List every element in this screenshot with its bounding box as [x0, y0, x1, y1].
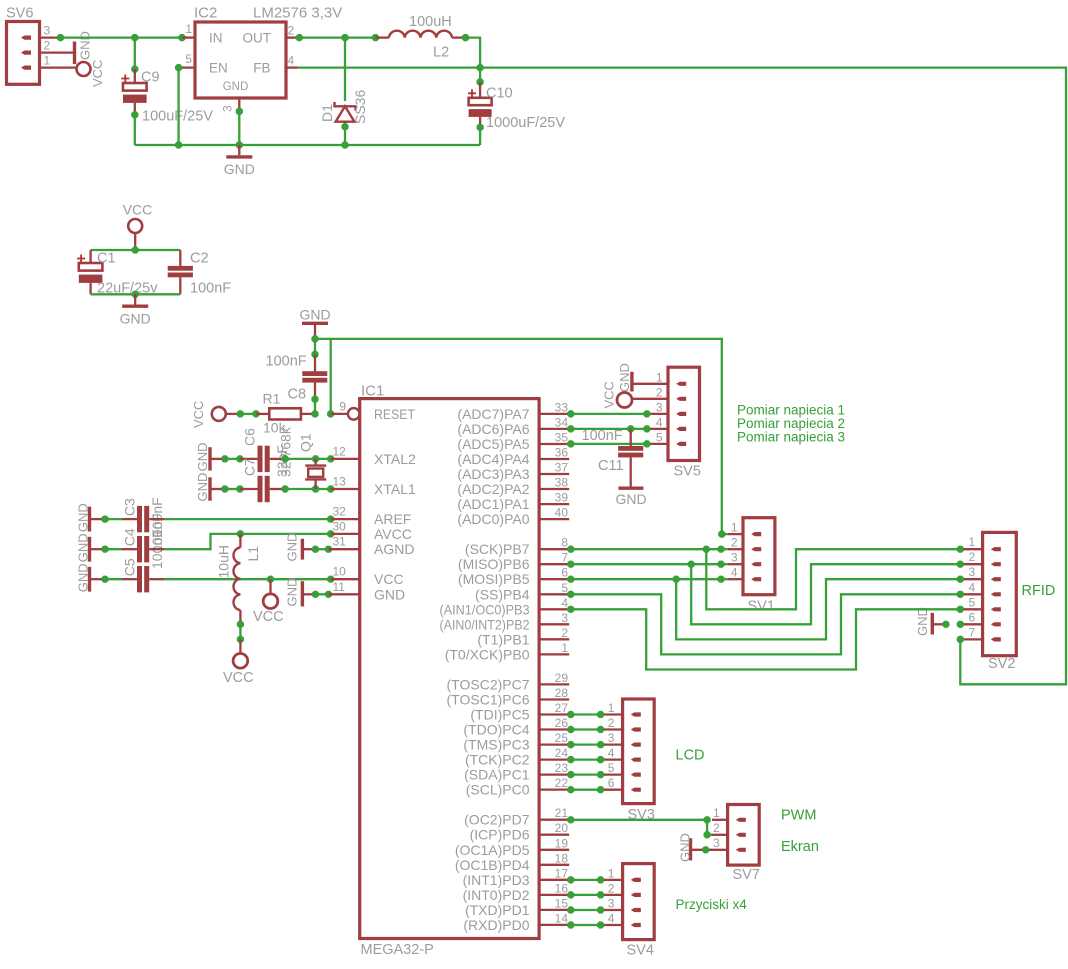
ground GND at SV5 pin 1 — [630, 372, 633, 392]
svg-text:13: 13 — [333, 475, 347, 489]
svg-text:(TXD)PD1: (TXD)PD1 — [465, 902, 530, 918]
op-amp U1 regulator IC2 LM2576 — [195, 22, 286, 98]
svg-text:(SCL)PC0: (SCL)PC0 — [466, 782, 530, 798]
svg-text:LM2576 3,3V: LM2576 3,3V — [253, 5, 342, 22]
capacitor C1 — [89, 250, 91, 263]
svg-text:10: 10 — [333, 565, 347, 579]
svg-text:28: 28 — [555, 686, 569, 700]
svg-text:C1: C1 — [97, 251, 116, 267]
svg-text:37: 37 — [555, 461, 569, 475]
wire AVCC net with jog — [164, 534, 331, 549]
svg-text:(T1)PB1: (T1)PB1 — [477, 631, 529, 647]
svg-text:GND: GND — [617, 363, 632, 392]
svg-text:(TMS)PC3: (TMS)PC3 — [463, 737, 529, 753]
svg-text:4: 4 — [288, 54, 295, 68]
ground GND below C11 — [618, 487, 643, 490]
connector SV5 — [668, 367, 700, 460]
pin 35 (ADC5)PA5 — [539, 443, 569, 445]
ground GND at C3 — [88, 507, 91, 532]
svg-text:SV6: SV6 — [6, 6, 33, 22]
svg-text:14: 14 — [555, 911, 569, 925]
svg-text:3: 3 — [713, 836, 720, 850]
wire GND net down to RESET — [330, 339, 332, 414]
svg-text:2: 2 — [561, 626, 568, 640]
capacitor C2 — [179, 250, 181, 266]
inductor L1 10uH — [239, 534, 241, 548]
svg-text:(ICP)PD6: (ICP)PD6 — [470, 827, 530, 843]
supply VCC at reset — [212, 407, 226, 421]
svg-text:GND: GND — [678, 833, 693, 862]
svg-text:VCC: VCC — [90, 60, 105, 87]
svg-text:C5: C5 — [122, 558, 138, 576]
pin 3 (AIN0/INT2)PB2 — [539, 623, 569, 625]
svg-text:7: 7 — [969, 625, 976, 639]
svg-text:SV4: SV4 — [627, 943, 654, 959]
svg-text:GND: GND — [285, 578, 300, 607]
svg-text:C3: C3 — [122, 498, 138, 516]
wire VCC to R1 — [240, 413, 256, 415]
ground GND at SV7 pin 3 — [689, 838, 692, 860]
pin 17 (INT1)PD3 — [539, 879, 569, 881]
svg-text:C9: C9 — [141, 70, 160, 86]
pin 4 (AIN1/OC0)PB3 — [539, 608, 569, 610]
svg-text:30: 30 — [333, 519, 347, 533]
svg-text:1: 1 — [731, 521, 738, 535]
resistor R1 10k — [256, 413, 269, 415]
svg-text:15: 15 — [555, 896, 569, 910]
capacitor C7 32pF — [240, 488, 258, 490]
svg-text:(TDI)PC5: (TDI)PC5 — [470, 707, 529, 723]
svg-text:IC2: IC2 — [194, 5, 217, 22]
svg-text:Q1: Q1 — [297, 433, 313, 452]
svg-text:(INT0)PD2: (INT0)PD2 — [463, 887, 530, 903]
wire OUT to L2 — [296, 34, 303, 41]
supply VCC below L1 — [233, 654, 248, 669]
svg-text:SV5: SV5 — [674, 464, 701, 480]
svg-text:100nF: 100nF — [266, 354, 307, 370]
svg-text:XTAL2: XTAL2 — [374, 451, 416, 467]
wire PD2 to SV4 pin 2 — [567, 891, 574, 898]
svg-text:6: 6 — [969, 610, 976, 624]
inductor L2 100uH — [376, 36, 390, 38]
pin 5 EN — [179, 66, 195, 68]
svg-text:34: 34 — [555, 415, 569, 429]
pin 24 (TCK)PC2 — [539, 758, 569, 760]
svg-text:(OC1B)PD4: (OC1B)PD4 — [455, 857, 530, 873]
svg-text:(ADC7)PA7: (ADC7)PA7 — [457, 406, 529, 422]
svg-text:SS36: SS36 — [352, 90, 368, 124]
svg-text:(ADC0)PA0: (ADC0)PA0 — [457, 511, 529, 527]
supply VCC at SV5 pin 2 — [617, 393, 632, 408]
pin 19 (OC1A)PD5 — [539, 849, 569, 851]
svg-text:GND: GND — [195, 443, 210, 472]
wire VCC rail C1 C2 — [132, 246, 139, 253]
svg-text:(TOSC2)PC7: (TOSC2)PC7 — [447, 676, 530, 692]
ground GND at C5 — [88, 567, 91, 592]
capacitor C9 — [134, 38, 136, 70]
svg-text:VCC: VCC — [253, 609, 284, 625]
capacitor C4 100nF — [105, 548, 122, 550]
capacitor C6 32pF — [240, 458, 258, 460]
svg-text:25: 25 — [555, 731, 569, 745]
ground GND at SV6 pin 2 — [73, 42, 76, 65]
wire C7 to IC1 XTAL1 — [285, 488, 331, 490]
svg-text:(ADC1)PA1: (ADC1)PA1 — [457, 496, 529, 512]
capacitor C3 100nF — [105, 518, 122, 520]
connector SV4 — [623, 864, 655, 940]
svg-text:21: 21 — [555, 806, 569, 820]
svg-text:4: 4 — [561, 596, 568, 610]
svg-text:2: 2 — [608, 881, 615, 895]
svg-text:1000uF/25V: 1000uF/25V — [486, 115, 565, 131]
wire ground rail C1 C2 — [91, 293, 181, 295]
svg-text:(SS)PB4: (SS)PB4 — [475, 586, 530, 602]
svg-text:5: 5 — [969, 595, 976, 609]
svg-text:(ADC4)PA4: (ADC4)PA4 — [457, 451, 529, 467]
svg-text:C8: C8 — [288, 387, 307, 403]
wire MISO PB6 to SV1.3 and SV2.2 — [567, 561, 574, 568]
wire PA5 to SV5 pin 5 — [567, 440, 574, 447]
svg-text:VCC: VCC — [191, 401, 206, 428]
svg-text:1: 1 — [44, 54, 51, 68]
pin 4 FB — [286, 66, 298, 68]
svg-text:Pomiar napiecia 3: Pomiar napiecia 3 — [737, 430, 845, 445]
wire ground rail of regulator — [135, 144, 480, 146]
svg-text:18: 18 — [555, 851, 569, 865]
microcontroller IC1 MEGA32-P — [360, 399, 539, 939]
svg-text:GND: GND — [299, 307, 330, 323]
wire SV2 pin 7 dot — [957, 636, 964, 643]
svg-text:(ADC5)PA5: (ADC5)PA5 — [457, 436, 529, 452]
wire L2 to output node — [466, 38, 481, 68]
svg-text:Ekran: Ekran — [781, 839, 819, 855]
svg-text:(SCK)PB7: (SCK)PB7 — [465, 541, 530, 557]
svg-text:7: 7 — [561, 551, 568, 565]
svg-text:VCC: VCC — [374, 571, 404, 587]
svg-text:19: 19 — [555, 836, 569, 850]
ground GND at C7 — [208, 477, 211, 500]
pin 20 (ICP)PD6 — [539, 834, 569, 836]
pin 16 (INT0)PD2 — [539, 894, 569, 896]
wire RESET net to IC1 pin 9 — [311, 410, 318, 417]
connector SV7 — [728, 805, 760, 866]
svg-text:OUT: OUT — [243, 31, 272, 46]
ground GND at SV2 pin 6 — [931, 613, 934, 635]
svg-text:6: 6 — [608, 776, 615, 790]
svg-text:3: 3 — [656, 400, 663, 414]
pin stubs SV5 — [632, 383, 668, 385]
wire to SV1 pin 1 — [718, 531, 725, 538]
svg-text:VCC: VCC — [223, 670, 254, 686]
pin 1 (T0/XCK)PB0 — [539, 653, 569, 655]
svg-text:36: 36 — [555, 446, 569, 460]
wire PC4 to SV3 pin 2 — [567, 726, 574, 733]
svg-text:8: 8 — [561, 536, 568, 550]
svg-text:4: 4 — [731, 566, 738, 580]
svg-text:(TCK)PC2: (TCK)PC2 — [465, 752, 530, 768]
wire AREF net — [164, 518, 331, 520]
capacitor C8 100nF — [314, 339, 316, 355]
wire SS PB4 to SV2.4 — [567, 591, 574, 598]
svg-text:(AIN0/INT2)PB2: (AIN0/INT2)PB2 — [440, 616, 530, 632]
pin 40 (ADC0)PA0 — [539, 518, 569, 520]
svg-text:VCC: VCC — [602, 381, 617, 408]
svg-text:1: 1 — [608, 866, 615, 880]
svg-text:29: 29 — [555, 671, 569, 685]
svg-text:(INT1)PD3: (INT1)PD3 — [463, 872, 530, 888]
svg-text:(MISO)PB6: (MISO)PB6 — [458, 556, 530, 572]
pin 22 (SCL)PC0 — [539, 788, 569, 790]
wire PC1 to SV3 pin 5 — [567, 771, 574, 778]
svg-text:33: 33 — [555, 400, 569, 414]
svg-text:5: 5 — [561, 581, 568, 595]
svg-text:SV2: SV2 — [988, 656, 1015, 672]
ground GND at AGND — [301, 539, 304, 560]
svg-text:3: 3 — [731, 551, 738, 565]
svg-text:GND: GND — [78, 31, 93, 60]
svg-text:SV7: SV7 — [733, 867, 760, 883]
wire ground to C7 — [221, 485, 228, 492]
svg-text:38: 38 — [555, 476, 569, 490]
wire PD1 to SV4 pin 3 — [567, 906, 574, 913]
svg-text:9: 9 — [339, 400, 346, 414]
svg-text:VCC: VCC — [123, 202, 153, 218]
wire VCC net to pin 10 — [164, 578, 331, 580]
svg-text:SV1: SV1 — [748, 599, 775, 615]
svg-text:24: 24 — [555, 746, 569, 760]
svg-text:2: 2 — [656, 385, 663, 399]
capacitor C5 100nF — [105, 578, 122, 580]
svg-text:C7: C7 — [242, 458, 258, 476]
svg-text:C11: C11 — [598, 458, 624, 474]
svg-text:GND: GND — [374, 586, 405, 602]
pin 36 (ADC4)PA4 — [539, 458, 569, 460]
svg-text:(RXD)PD0: (RXD)PD0 — [463, 917, 529, 933]
pin 34 (ADC6)PA6 — [539, 428, 569, 430]
wire PC0 to SV3 pin 6 — [567, 786, 574, 793]
wire SCK PB7 to SV1.2 and SV2.1 — [567, 546, 574, 553]
wire PD7 OC2 to SV7 pins 1 2 — [567, 816, 574, 823]
svg-text:(MOSI)PB5: (MOSI)PB5 — [458, 571, 530, 587]
svg-text:2: 2 — [731, 536, 738, 550]
svg-text:GND: GND — [285, 533, 300, 562]
pin 21 (OC2)PD7 — [539, 819, 569, 821]
svg-text:5: 5 — [608, 761, 615, 775]
svg-text:IC1: IC1 — [361, 383, 384, 400]
svg-text:1: 1 — [969, 535, 976, 549]
wire ground to C6 — [221, 455, 228, 462]
ground GND below IC2 — [238, 145, 240, 155]
svg-text:100uH: 100uH — [409, 14, 452, 30]
svg-text:C10: C10 — [486, 86, 513, 102]
ground GND below C1 C2 — [134, 294, 136, 304]
pin 15 (TXD)PD1 — [539, 909, 569, 911]
svg-text:26: 26 — [555, 716, 569, 730]
svg-text:(TDO)PC4: (TDO)PC4 — [463, 722, 529, 738]
svg-text:32,768k: 32,768k — [278, 426, 294, 477]
wire MOSI PB5 to SV1.4 and SV2.3 — [567, 576, 574, 583]
svg-text:AREF: AREF — [374, 511, 411, 527]
svg-text:GND: GND — [615, 491, 646, 507]
svg-text:GND: GND — [223, 81, 249, 93]
svg-text:(TOSC1)PC6: (TOSC1)PC6 — [447, 692, 530, 708]
svg-text:3: 3 — [608, 731, 615, 745]
svg-text:L2: L2 — [433, 45, 449, 61]
wire PA7 to SV5 pin 3 — [567, 410, 574, 417]
svg-text:16: 16 — [555, 881, 569, 895]
svg-text:C4: C4 — [122, 528, 138, 546]
svg-text:AVCC: AVCC — [374, 526, 412, 542]
svg-text:100nF: 100nF — [582, 428, 623, 444]
pin 38 (ADC2)PA2 — [539, 488, 569, 490]
pin 29 (TOSC2)PC7 — [539, 683, 569, 685]
wire C6 to IC1 XTAL2 — [285, 458, 331, 460]
svg-text:Przyciski x4: Przyciski x4 — [676, 897, 748, 912]
svg-text:GND: GND — [120, 311, 151, 327]
svg-text:1: 1 — [713, 806, 720, 820]
svg-text:RFID: RFID — [1022, 583, 1056, 599]
wire FB / 3.3V net to RFID pin 7 — [298, 68, 1067, 685]
svg-text:GND: GND — [76, 503, 91, 532]
svg-text:C6: C6 — [242, 428, 258, 446]
svg-text:17: 17 — [555, 866, 569, 880]
svg-text:(ADC6)PA6: (ADC6)PA6 — [457, 421, 529, 437]
svg-text:23: 23 — [555, 761, 569, 775]
svg-text:3: 3 — [561, 611, 568, 625]
pin 23 (SDA)PC1 — [539, 773, 569, 775]
svg-text:6: 6 — [561, 566, 568, 580]
wire PD0 to SV4 pin 4 — [567, 921, 574, 928]
connector SV2 RFID — [983, 532, 1017, 655]
svg-text:MEGA32-P: MEGA32-P — [361, 942, 434, 958]
pin 9 RESET with inverting circle — [348, 408, 360, 420]
svg-text:5: 5 — [185, 52, 192, 66]
svg-text:3: 3 — [221, 105, 235, 112]
svg-text:4: 4 — [656, 415, 663, 429]
capacitor C10 — [479, 68, 481, 82]
pin 1 IN — [182, 36, 195, 38]
svg-text:20: 20 — [555, 821, 569, 835]
svg-text:C2: C2 — [190, 251, 209, 267]
pin 25 (TMS)PC3 — [539, 743, 569, 745]
svg-text:11: 11 — [333, 580, 346, 594]
svg-text:GND: GND — [224, 161, 255, 177]
pin 26 (TDO)PC4 — [539, 728, 569, 730]
svg-text:1: 1 — [656, 370, 663, 384]
svg-text:4: 4 — [969, 580, 976, 594]
svg-text:32: 32 — [333, 505, 347, 519]
svg-text:10uH: 10uH — [216, 545, 232, 578]
svg-text:5: 5 — [656, 430, 663, 444]
svg-text:(SDA)PC1: (SDA)PC1 — [464, 767, 530, 783]
wire PB3 to SV2.5 — [567, 606, 574, 613]
supply VCC at SV6 pin 1 — [77, 62, 91, 76]
ground GND at pin 11 — [301, 581, 304, 606]
svg-text:12: 12 — [333, 444, 347, 458]
pin 2 OUT — [286, 36, 298, 38]
capacitor C11 100nF — [630, 429, 632, 446]
pin 6 (MOSI)PB5 — [539, 578, 569, 580]
pin 7 (MISO)PB6 — [539, 563, 569, 565]
pin 33 (ADC7)PA7 — [539, 413, 569, 415]
pin 2 (T1)PB1 — [539, 638, 569, 640]
svg-text:31: 31 — [333, 535, 347, 549]
pin 8 (SCK)PB7 — [539, 548, 569, 550]
svg-text:39: 39 — [555, 491, 569, 505]
svg-text:2: 2 — [44, 39, 51, 53]
svg-text:100nF: 100nF — [190, 281, 231, 297]
wire PD3 to SV4 pin 1 — [567, 876, 574, 883]
svg-text:RESET: RESET — [374, 406, 415, 422]
pin 39 (ADC1)PA1 — [539, 503, 569, 505]
wire PC3 to SV3 pin 3 — [567, 741, 574, 748]
svg-text:(ADC2)PA2: (ADC2)PA2 — [457, 481, 529, 497]
pin 5 (SS)PB4 — [539, 593, 569, 595]
svg-text:(T0/XCK)PB0: (T0/XCK)PB0 — [445, 646, 530, 662]
svg-text:1: 1 — [561, 641, 568, 655]
svg-text:GND: GND — [195, 473, 210, 502]
svg-text:(OC1A)PD5: (OC1A)PD5 — [455, 842, 530, 858]
wire PA6 to SV5 pin 4 — [567, 425, 574, 432]
pin 37 (ADC3)PA3 — [539, 473, 569, 475]
svg-text:XTAL1: XTAL1 — [374, 481, 416, 497]
wire GND net to SV1 pin 1 — [311, 335, 318, 342]
svg-text:GND: GND — [915, 607, 930, 636]
connector SV1 — [743, 518, 775, 595]
connector SV6 — [7, 22, 40, 85]
diode D1 SS36 — [344, 38, 346, 101]
svg-text:GND: GND — [76, 563, 91, 592]
svg-text:3: 3 — [608, 897, 615, 911]
crystal Q1 32,768k — [314, 459, 316, 466]
svg-text:35: 35 — [555, 431, 569, 445]
pin 14 (RXD)PD0 — [539, 924, 569, 926]
svg-text:R1: R1 — [263, 391, 281, 407]
pin 18 (OC1B)PD4 — [539, 864, 569, 866]
svg-text:L1: L1 — [245, 546, 261, 562]
svg-text:40: 40 — [555, 506, 569, 520]
pin 28 (TOSC1)PC6 — [539, 698, 569, 700]
wire PC2 to SV3 pin 4 — [567, 756, 574, 763]
svg-text:2: 2 — [969, 550, 976, 564]
ground GND at C6 — [208, 447, 211, 470]
svg-text:PWM: PWM — [781, 808, 816, 824]
svg-text:EN: EN — [209, 61, 228, 76]
svg-text:LCD: LCD — [676, 748, 705, 764]
svg-text:(OC2)PD7: (OC2)PD7 — [464, 812, 530, 828]
supply VCC at pin 10 net — [263, 594, 278, 609]
wire VCC input: SV6.3 to IC2 IN — [58, 36, 182, 38]
ground GND at C4 — [88, 537, 91, 562]
connector SV3 LCD — [623, 699, 655, 804]
svg-text:4: 4 — [608, 912, 615, 926]
svg-text:2: 2 — [288, 24, 295, 38]
svg-text:GND: GND — [76, 533, 91, 562]
svg-text:1: 1 — [608, 701, 615, 715]
svg-text:27: 27 — [555, 701, 569, 715]
svg-text:4: 4 — [608, 746, 615, 760]
svg-text:D1: D1 — [319, 104, 335, 122]
svg-text:3: 3 — [969, 565, 976, 579]
svg-text:AGND: AGND — [374, 541, 414, 557]
svg-text:3: 3 — [44, 24, 51, 38]
svg-text:1: 1 — [185, 22, 192, 36]
wire PC5 to SV3 pin 1 — [567, 711, 574, 718]
svg-text:IN: IN — [209, 31, 223, 46]
wire EN to ground rail — [175, 64, 182, 71]
svg-text:2: 2 — [608, 716, 615, 730]
svg-text:(ADC3)PA3: (ADC3)PA3 — [457, 466, 529, 482]
